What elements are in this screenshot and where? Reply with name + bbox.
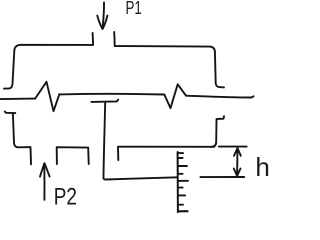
scale tick 3 (long)	[178, 165, 187, 167]
arrow P1 (pointing down into top port)	[97, 3, 107, 29]
scale tick 4	[178, 173, 183, 175]
top wall left segment with port lip	[14, 33, 93, 51]
scale tick 1	[178, 152, 183, 154]
arrow P2 (pointing up into bottom port)	[40, 163, 50, 200]
right tube elbow with top lip	[211, 116, 224, 147]
scale tick 7 (long)	[178, 194, 185, 196]
lower-left wall: lip, vertical, shelf, down-tick	[5, 112, 31, 165]
scale (ruler) vertical line	[177, 152, 179, 212]
dimension arrow h (double-headed)	[234, 148, 241, 176]
scale tick 2	[178, 157, 183, 159]
main line right segment	[186, 96, 254, 98]
left chamber wall vertical with foot	[4, 51, 14, 89]
svg-text:P1: P1	[126, 0, 142, 19]
central tube stem	[104, 102, 106, 178]
right chamber wall vertical with foot	[215, 52, 224, 87]
central tube cap (T)	[91, 100, 118, 102]
upper reference segment (right of elbow)	[219, 146, 247, 148]
right cup tick and liquid level line right chamber	[118, 147, 214, 160]
lower port right wall and well left bridge with ticks	[57, 147, 89, 164]
scale tick 8	[178, 204, 183, 206]
scale tick 6	[178, 187, 183, 189]
break symbol (zigzag) left	[35, 82, 59, 111]
svg-text:P2: P2	[54, 182, 77, 210]
top wall right segment with port lip	[114, 32, 215, 52]
svg-text:h: h	[255, 152, 269, 182]
break symbol (zigzag) right	[164, 84, 186, 108]
liquid level line from stem to scale	[104, 177, 178, 179]
main line left segment	[0, 98, 35, 101]
scale tick 5 (long)	[178, 180, 188, 182]
scale tick 9 (bottom, long)	[178, 210, 188, 212]
lower reference line	[200, 176, 244, 178]
main line middle segment	[59, 93, 164, 96]
